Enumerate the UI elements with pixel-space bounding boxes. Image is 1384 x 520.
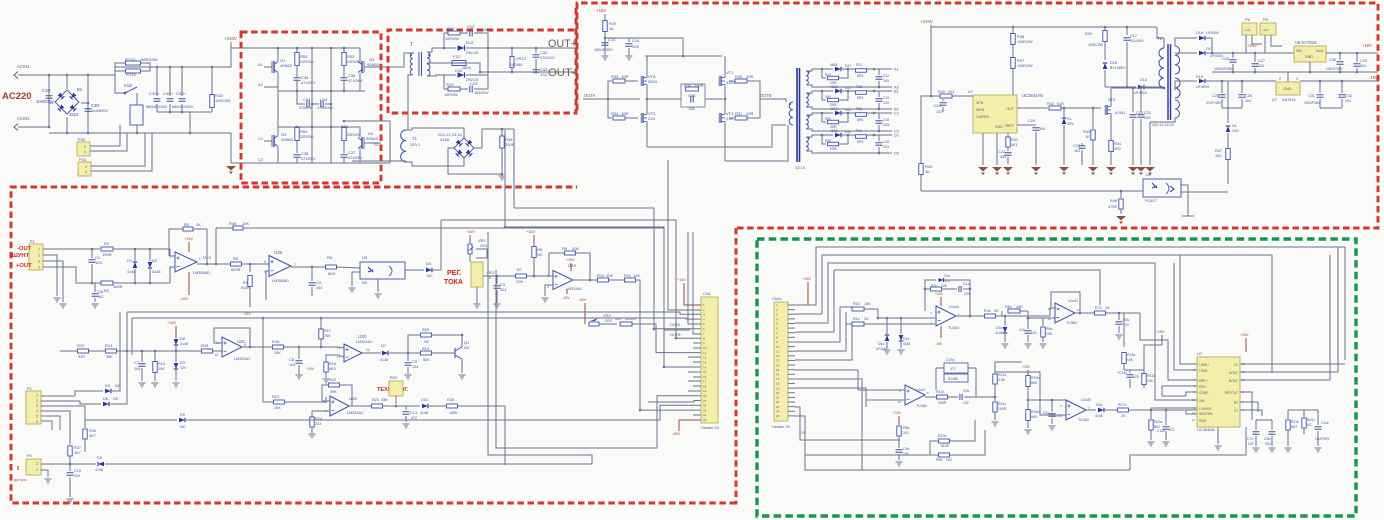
resistor R17 <box>320 318 322 329</box>
svg-text:10K: 10K <box>1016 305 1023 309</box>
svg-text:16: 16 <box>776 373 780 377</box>
wire AC top rail <box>88 67 150 75</box>
wire +310V aux rail <box>931 25 1157 27</box>
svg-text:R10c: R10c <box>938 434 947 438</box>
svg-text:C9: C9 <box>412 359 418 364</box>
svg-text:BY126EV: BY126EV <box>1110 66 1126 70</box>
diode D4 <box>405 269 424 271</box>
svg-text:ТОКА: ТОКА <box>444 279 463 286</box>
wire P3D pin wires <box>90 125 120 146</box>
svg-text:106: 106 <box>688 106 695 111</box>
svg-text:222: 222 <box>1248 442 1254 446</box>
svg-text:R1Z: R1Z <box>447 26 455 31</box>
svg-text:R28: R28 <box>447 398 454 402</box>
svg-text:223: 223 <box>315 422 321 426</box>
svg-text:C9c: C9c <box>963 389 970 393</box>
capacitor C4c <box>1027 318 1029 329</box>
svg-text:P6: P6 <box>1245 17 1251 22</box>
svg-text:OUTB: OUTB <box>670 333 681 337</box>
svg-text:GND: GND <box>995 125 1003 129</box>
svg-text:6K3: 6K3 <box>1291 425 1297 429</box>
svg-text:R52: R52 <box>347 54 355 59</box>
wire C2D leads <box>87 75 89 133</box>
svg-text:D2: D2 <box>152 258 158 263</box>
svg-text:R7c: R7c <box>1095 306 1102 310</box>
svg-text:+15V: +15V <box>184 237 193 241</box>
svg-text:C3Z: C3Z <box>540 50 548 55</box>
wire channel C2 return <box>806 129 892 131</box>
svg-text:Q1: Q1 <box>464 340 470 345</box>
svg-text:VIN: VIN <box>1199 399 1205 403</box>
svg-text:C13: C13 <box>410 411 417 415</box>
svg-text:R8I: R8I <box>825 117 831 121</box>
svg-text:5R1: 5R1 <box>857 118 864 122</box>
svg-text:R13: R13 <box>105 343 113 348</box>
wire AC bottom rail <box>49 132 231 134</box>
wire negative rail <box>230 133 232 163</box>
dashed box output rectifier <box>388 8 576 113</box>
capacitor C4Z <box>533 70 540 72</box>
transistor G3 <box>273 135 275 147</box>
svg-text:R20: R20 <box>422 328 429 332</box>
wire VR2 stem <box>584 303 586 324</box>
svg-text:1000UF/35V: 1000UF/35V <box>1214 67 1234 71</box>
svg-text:10: 10 <box>776 345 780 349</box>
svg-text:21: 21 <box>776 396 780 400</box>
svg-text:+15V: +15V <box>1362 43 1372 48</box>
svg-text:14D561: 14D561 <box>510 63 523 67</box>
resistor R4I parallel <box>822 91 826 100</box>
svg-text:25: 25 <box>776 414 780 418</box>
svg-text:R8c: R8c <box>903 426 910 430</box>
svg-text:104: 104 <box>1144 116 1150 120</box>
svg-text:VREF: VREF <box>1004 124 1014 128</box>
svg-text:U3: U3 <box>362 255 368 260</box>
svg-text:+24V: +24V <box>1244 28 1251 32</box>
svg-text:+15V: +15V <box>466 230 475 234</box>
op-amp U2C <box>222 337 242 357</box>
svg-text:100K/2W: 100K/2W <box>1017 64 1033 68</box>
zener Z1c <box>925 280 936 311</box>
svg-text:NC: NC <box>1307 423 1312 427</box>
op-amp U1cC out <box>925 396 936 398</box>
resistor R6I <box>841 112 855 114</box>
resistor R23 <box>349 405 371 407</box>
ground C20 <box>1031 167 1041 172</box>
wire C9c node up <box>995 362 1022 372</box>
capacitor C21 <box>1140 87 1142 112</box>
capacitor C8 <box>298 347 300 359</box>
svg-text:12: 12 <box>1192 418 1196 422</box>
svg-text:40N63: 40N63 <box>366 136 379 141</box>
resistor R43 <box>1092 108 1094 129</box>
svg-text:C7c: C7c <box>1247 437 1254 441</box>
resistor R16c <box>1123 313 1125 347</box>
svg-text:18: 18 <box>776 382 780 386</box>
svg-text:R11: R11 <box>624 273 632 278</box>
wire P2 pins <box>41 395 75 397</box>
svg-text:4148: 4148 <box>1095 414 1103 418</box>
ground R43 <box>1088 167 1098 172</box>
svg-text:10K: 10K <box>941 284 948 288</box>
svg-text:D2I: D2I <box>845 86 851 90</box>
ground R46 <box>1116 216 1126 221</box>
svg-text:U1cD: U1cD <box>1068 298 1078 303</box>
diode D1 <box>133 262 138 268</box>
svg-text:21: 21 <box>703 399 707 403</box>
resistor R15c <box>1124 370 1144 373</box>
resistor R8I parallel <box>822 113 826 122</box>
svg-text:150R: 150R <box>998 407 1007 411</box>
resistor R49 <box>620 322 632 326</box>
svg-text:100: 100 <box>1215 154 1221 158</box>
capacitor C10 <box>69 466 71 471</box>
svg-text:24: 24 <box>776 409 780 413</box>
wire +24V rail <box>1212 52 1295 54</box>
svg-text:R7: R7 <box>517 267 523 272</box>
wire sense columns <box>488 232 592 464</box>
svg-text:10: 10 <box>898 400 902 404</box>
svg-text:C29: C29 <box>1360 59 1367 63</box>
svg-text:A1: A1 <box>258 62 264 67</box>
svg-text:UC3844AN: UC3844AN <box>1022 93 1043 98</box>
svg-text:R4c: R4c <box>984 309 991 313</box>
svg-text:5: 5 <box>36 415 38 419</box>
bridge rectifier B1 <box>55 90 79 114</box>
capacitor C15 <box>602 43 609 45</box>
svg-text:R6: R6 <box>327 255 333 260</box>
svg-text:LM324AJ: LM324AJ <box>234 357 250 361</box>
svg-text:A2: A2 <box>258 82 264 87</box>
resistor R52 <box>342 53 346 66</box>
svg-text:100R: 100R <box>102 252 112 257</box>
svg-text:+15V: +15V <box>1156 330 1165 334</box>
capacitor C34 <box>311 103 319 105</box>
wire -15V rail <box>1206 80 1276 82</box>
svg-text:8: 8 <box>264 260 266 264</box>
svg-text:100R: 100R <box>113 284 123 289</box>
wire channel C1 out <box>874 112 892 114</box>
svg-text:2: 2 <box>36 399 38 403</box>
svg-text:33K: 33K <box>381 398 388 402</box>
svg-text:23: 23 <box>776 405 780 409</box>
resistor R31 <box>729 117 734 119</box>
svg-text:R22: R22 <box>329 378 336 382</box>
capacitor C14c <box>1165 410 1167 425</box>
svg-text:104: 104 <box>500 288 506 292</box>
svg-text:+310V: +310V <box>920 19 933 24</box>
wire shunt minus <box>43 248 100 250</box>
svg-text:1: 1 <box>85 170 87 174</box>
svg-text:+15V: +15V <box>677 278 686 282</box>
resistor R1Z <box>444 33 448 48</box>
svg-text:510K: 510K <box>941 444 950 448</box>
capacitor C1 <box>91 249 93 258</box>
svg-text:D9: D9 <box>180 413 185 417</box>
wire channel D1 top <box>806 135 833 137</box>
svg-text:+15V: +15V <box>935 292 944 296</box>
svg-text:-15V: -15V <box>935 342 943 346</box>
svg-text:680UF/400V: 680UF/400V <box>172 105 194 109</box>
diode D6b <box>80 401 101 404</box>
svg-text:103: 103 <box>883 79 889 83</box>
wire bridge right <box>81 102 88 104</box>
svg-text:100UF/35V: 100UF/35V <box>1326 67 1343 71</box>
svg-text:4148: 4148 <box>440 137 450 142</box>
svg-text:4148: 4148 <box>180 342 188 346</box>
wire ACIN2 to bridge <box>18 126 49 128</box>
svg-text:D92-02: D92-02 <box>466 51 478 55</box>
ground Z1 <box>1059 167 1069 172</box>
resistor R10c <box>930 441 938 455</box>
svg-text:VT1: VT1 <box>726 70 734 75</box>
svg-text:104: 104 <box>316 286 322 290</box>
svg-text:104: 104 <box>1258 64 1264 68</box>
svg-text:105: 105 <box>632 44 639 49</box>
svg-text:10K: 10K <box>242 221 249 226</box>
wire ACIN1 to bridge <box>18 74 88 76</box>
capacitor C1c <box>952 288 957 290</box>
resistor R2I parallel <box>822 69 826 78</box>
svg-text:4618: 4618 <box>830 107 838 111</box>
svg-text:REFOUT: REFOUT <box>1225 391 1238 395</box>
svg-text:-15V: -15V <box>578 298 586 302</box>
svg-text:C11c: C11c <box>1321 421 1329 425</box>
resistor R2 <box>101 281 113 285</box>
resistor R6c <box>1042 318 1044 326</box>
capacitor C13 <box>405 406 407 410</box>
diode D9 <box>85 419 177 421</box>
svg-text:R10: R10 <box>597 273 605 278</box>
svg-text:R12: R12 <box>77 343 85 348</box>
svg-text:U1B: U1B <box>274 250 282 255</box>
svg-text:ISEN: ISEN <box>976 108 985 112</box>
wire channel A1 out <box>874 68 892 70</box>
wire bus y227 <box>505 227 690 330</box>
svg-text:2: 2 <box>84 145 86 149</box>
svg-text:AC220: AC220 <box>2 91 32 102</box>
svg-text:102: 102 <box>1074 149 1080 153</box>
diode D19 <box>1175 81 1197 90</box>
capacitor C5c <box>1118 313 1120 320</box>
resistor R20 <box>408 335 420 353</box>
svg-text:5R1: 5R1 <box>857 74 864 78</box>
svg-text:2: 2 <box>36 462 38 466</box>
svg-text:OUTB: OUTB <box>760 93 772 98</box>
wire bridge bottom <box>66 117 68 133</box>
svg-text:VC: VC <box>1234 363 1239 367</box>
svg-text:10K: 10K <box>1147 379 1154 383</box>
wire OUTB to transformer <box>760 99 786 102</box>
svg-text:T1: T1 <box>412 136 418 141</box>
svg-text:200R: 200R <box>938 401 947 405</box>
svg-text:P3D: P3D <box>78 138 86 142</box>
wire T secondary bottom <box>427 75 444 76</box>
svg-text:+24V: +24V <box>1262 28 1269 32</box>
svg-text:R15: R15 <box>201 343 209 348</box>
svg-text:NC: NC <box>115 384 121 388</box>
gate drive transformer TG core <box>797 68 800 162</box>
capacitor C6 <box>94 283 96 292</box>
capacitor C2I <box>874 91 879 97</box>
svg-text:4148: 4148 <box>95 468 103 472</box>
svg-text:23: 23 <box>703 408 707 412</box>
svg-text:UF4004: UF4004 <box>1206 31 1219 35</box>
svg-text:R42: R42 <box>1047 102 1054 106</box>
diode D5 <box>98 462 104 467</box>
svg-text:4618: 4618 <box>830 63 838 67</box>
capacitor C4D <box>169 67 171 96</box>
svg-text:NC: NC <box>537 252 543 257</box>
svg-text:5R1: 5R1 <box>857 96 864 100</box>
capacitor C3I <box>874 113 879 119</box>
svg-text:C27: C27 <box>1258 59 1265 63</box>
svg-text:RT: RT <box>1234 401 1238 405</box>
diode D2I <box>835 89 841 94</box>
svg-text:R5c: R5c <box>1005 305 1012 309</box>
resistor R12 <box>60 350 77 352</box>
wire R28 right <box>504 406 506 465</box>
svg-text:R41: R41 <box>1011 138 1018 142</box>
svg-text:3K: 3K <box>994 309 999 313</box>
wire cap bottom rail <box>157 111 212 113</box>
wire opto connections <box>1140 190 1143 192</box>
svg-text:D5: D5 <box>97 456 102 460</box>
svg-text:4148: 4148 <box>127 270 135 274</box>
resistor R7 <box>497 275 515 277</box>
svg-text:C36: C36 <box>348 73 356 78</box>
svg-text:D1c: D1c <box>1043 411 1049 415</box>
wire T primary bottom <box>408 75 413 130</box>
svg-text:153/2KV: 153/2KV <box>474 91 489 95</box>
ground T1 <box>499 176 506 180</box>
svg-text:F1Z: F1Z <box>453 54 461 59</box>
diode D17 <box>1175 52 1197 54</box>
wire green box lower loop <box>1130 427 1246 470</box>
svg-text:4618: 4618 <box>830 85 838 89</box>
resistor R1I <box>841 68 855 70</box>
svg-text:92N60: 92N60 <box>367 62 380 67</box>
svg-text:C38: C38 <box>301 151 309 156</box>
svg-text:U2B: U2B <box>349 396 357 401</box>
capacitor C20 <box>1017 124 1036 126</box>
svg-text:11: 11 <box>776 349 779 353</box>
svg-text:104: 104 <box>1345 99 1351 103</box>
wire P2D pin wires <box>91 133 145 166</box>
resistor R46 <box>1120 191 1122 198</box>
svg-text:T: T <box>410 42 413 48</box>
wire mid columns <box>311 48 313 163</box>
resistor R41 <box>1007 133 1009 137</box>
svg-text:56R/10W: 56R/10W <box>141 57 158 62</box>
diode D15 <box>1103 63 1108 69</box>
op-amp U1B <box>269 256 291 277</box>
resistor R2I <box>841 90 855 92</box>
svg-text:100UF/35V: 100UF/35V <box>1304 101 1321 105</box>
svg-text:C37: C37 <box>348 150 356 155</box>
svg-text:R34: R34 <box>611 111 619 116</box>
svg-text:UF4004: UF4004 <box>1210 54 1223 58</box>
capacitor C7 <box>141 351 143 362</box>
svg-text:2K: 2K <box>196 222 201 227</box>
svg-text:D17: D17 <box>1206 47 1213 51</box>
wire bus y208 <box>514 208 701 329</box>
resistor R22 <box>322 385 328 401</box>
svg-text:471/2KV: 471/2KV <box>301 81 316 85</box>
wire driver bottom returns <box>647 125 786 147</box>
svg-text:39K: 39K <box>106 355 113 359</box>
svg-text:C17: C17 <box>1130 34 1137 38</box>
svg-text:GND: GND <box>1305 55 1313 59</box>
svg-text:C20: C20 <box>1028 119 1035 123</box>
wire R2c node <box>878 309 935 318</box>
resistor R38 <box>1012 27 1014 33</box>
svg-text:RX2: RX2 <box>390 376 397 380</box>
svg-text:R2c: R2c <box>853 302 860 306</box>
svg-text:R48: R48 <box>229 221 237 226</box>
svg-text:1: 1 <box>84 150 86 154</box>
svg-text:R5: R5 <box>243 280 249 285</box>
svg-text:12: 12 <box>776 354 780 358</box>
diode D18 <box>1175 38 1197 46</box>
svg-text:LM358AD: LM358AD <box>272 279 289 283</box>
resistor R3c <box>925 288 930 290</box>
svg-text:10K: 10K <box>274 406 281 410</box>
wire bus y221 down <box>676 220 701 338</box>
svg-text:20K: 20K <box>516 279 523 284</box>
svg-text:P2D: P2D <box>79 158 87 162</box>
resistor R21c <box>1287 410 1289 419</box>
svg-text:4K7: 4K7 <box>74 451 81 455</box>
svg-text:14: 14 <box>776 363 780 367</box>
svg-text:200R: 200R <box>505 142 515 147</box>
svg-text:40N60: 40N60 <box>280 63 293 68</box>
resistor R39 <box>1104 27 1106 30</box>
svg-text:P4: P4 <box>27 454 32 458</box>
svg-text:R6c: R6c <box>1046 327 1053 331</box>
svg-text:13: 13 <box>703 360 707 364</box>
svg-text:D1c: D1c <box>878 342 885 346</box>
svg-text:C4D+: C4D+ <box>163 91 174 96</box>
svg-text:VT3: VT3 <box>1108 97 1116 102</box>
wire phase to transformer <box>344 121 390 163</box>
wire U2A plus input <box>545 285 553 296</box>
svg-text:152: 152 <box>963 401 969 405</box>
wire T2 aux winding return <box>1150 118 1175 122</box>
svg-text:C35: C35 <box>301 75 309 80</box>
svg-text:200:12:22:22: 200:12:22:22 <box>1152 123 1174 127</box>
resistor R29 <box>603 21 607 32</box>
wire +310V feed <box>231 47 266 49</box>
resistor R17c <box>1118 408 1129 412</box>
svg-text:D2: D2 <box>894 151 900 156</box>
transistor G4 <box>361 137 363 149</box>
svg-text:R14B5: R14B5 <box>948 377 958 381</box>
svg-text:U1cC: U1cC <box>916 387 926 392</box>
op-amp U1cD out <box>1075 312 1094 314</box>
wire bus y220 <box>441 219 676 221</box>
svg-text:471/2KV: 471/2KV <box>301 157 316 161</box>
capacitor C22 <box>1007 147 1009 151</box>
svg-text:104: 104 <box>1360 64 1366 68</box>
svg-text:C1I: C1I <box>883 74 889 78</box>
svg-text:R1c: R1c <box>853 317 860 321</box>
svg-text:UF4004: UF4004 <box>1196 85 1209 89</box>
diode D3c <box>1004 316 1006 326</box>
svg-text:R53: R53 <box>300 54 308 59</box>
resistor R51 <box>342 128 346 141</box>
wire G2 gate out <box>364 53 414 67</box>
